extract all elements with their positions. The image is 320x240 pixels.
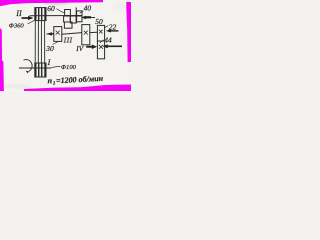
paper background (0, 0, 131, 91)
svg-text:60: 60 (47, 4, 55, 13)
gear z44 box (97, 41, 104, 59)
arrow of label 44 (102, 44, 108, 48)
svg-text:30: 30 (45, 44, 54, 53)
gear z60 on shaft II (65, 10, 71, 16)
gear z30 box on shaft III (54, 27, 62, 42)
leader line of label 40 to gear z40 (80, 11, 84, 13)
mesh line of gear z40 (75, 7, 77, 23)
belt lines between pulleys (35, 21, 45, 63)
shaft IV arrow (86, 46, 92, 48)
belt pulley F100 on shaft I (35, 63, 46, 77)
meshing gear below shaft II (64, 16, 71, 22)
rotation direction arc on shaft I (24, 60, 33, 72)
top magenta bar (0, 0, 103, 6)
svg-text:II: II (15, 9, 22, 18)
svg-text:Φ100: Φ100 (61, 64, 77, 71)
gear z30 cross mark (56, 31, 60, 35)
leader line of label 30 to gear z30 (53, 42, 58, 45)
shaft II horizontal line (30, 15, 83, 17)
svg-text:I: I (47, 58, 51, 67)
svg-text:III: III (63, 36, 73, 44)
gear z40 lower half (77, 16, 82, 22)
leader line of label 22 (105, 26, 108, 28)
svg-text:40: 40 (84, 3, 92, 12)
arrow of label 22 (106, 29, 111, 32)
shaft III arrow at left end (46, 32, 52, 35)
gear z50 cross mark (84, 31, 88, 35)
shaft III line, segment left of gear z30 (47, 33, 54, 35)
belt pulley F360 on shaft II (35, 8, 46, 21)
gear z22 box (97, 25, 104, 41)
leader line of label 60 to gear z60 (57, 9, 65, 13)
svg-text:50: 50 (95, 17, 103, 26)
thick label arrows (22, 16, 123, 49)
bottom magenta bar (24, 85, 131, 92)
svg-text:22: 22 (109, 22, 117, 31)
shaft III line, segment between gear z50 and gear block z22 (90, 31, 98, 33)
gear z22 cross mark (99, 30, 103, 34)
gear z44 cross mark (99, 45, 103, 49)
svg-text:44: 44 (104, 35, 112, 44)
right magenta bar (126, 2, 131, 62)
gear z50 box (82, 25, 90, 45)
shaft II input arrow (22, 17, 29, 19)
arrow of label 50 (81, 16, 86, 19)
lower gear of cluster (64, 22, 72, 28)
leader lines (28, 9, 109, 69)
gear z40 upper half (77, 11, 82, 16)
shaft I horizontal line (19, 67, 51, 69)
leader line of label F360 to top pulley (28, 21, 35, 24)
svg-text:Φ360: Φ360 (9, 22, 25, 29)
shaft III line, segment between gear z30 and gear z50 (62, 33, 82, 35)
magenta highlight frame (0, 0, 131, 91)
ink drawing (19, 7, 105, 77)
caption n1 = 1200 ob/min (47, 74, 104, 87)
text labels (9, 3, 117, 87)
rotation arc arrowhead (26, 71, 29, 74)
companion gear right of cluster (70, 16, 76, 23)
leader line of label 44 (100, 40, 104, 43)
leader line of label F100 to bottom pulley (50, 66, 61, 68)
left magenta bar (0, 28, 4, 91)
